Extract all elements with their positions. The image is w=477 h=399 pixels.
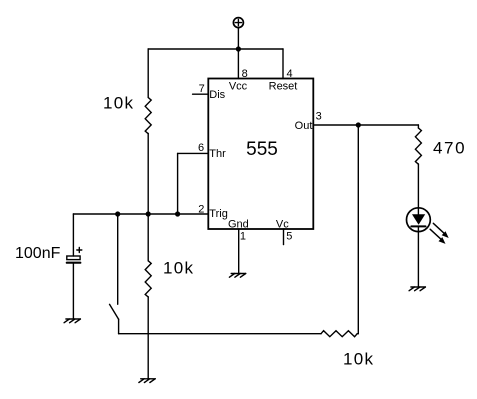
wire left rail upper bbox=[147, 49, 149, 98]
pin 3 wire Out bbox=[313, 124, 418, 126]
pin 1 wire Gnd bbox=[238, 229, 240, 274]
switch S1 blade bbox=[110, 304, 119, 319]
pin 5 stub wire bbox=[283, 229, 285, 245]
svg-text:7: 7 bbox=[199, 83, 205, 95]
svg-text:8: 8 bbox=[242, 68, 248, 80]
resistor R1 10k bbox=[145, 98, 151, 134]
junction dot top rail bbox=[236, 46, 241, 51]
junction dot resistor rail bbox=[146, 211, 151, 216]
wire to pin 4 bbox=[282, 49, 284, 79]
switch S1 bottom wire bbox=[118, 319, 120, 334]
ground under R2 bbox=[139, 379, 155, 383]
svg-text:100nF: 100nF bbox=[15, 245, 61, 262]
wire power to top rail bbox=[237, 28, 239, 49]
svg-text:Gnd: Gnd bbox=[228, 218, 249, 230]
switch S1 top wire bbox=[117, 214, 119, 304]
wire out to R3 bbox=[417, 125, 419, 128]
svg-text:1: 1 bbox=[240, 230, 246, 242]
svg-text:6: 6 bbox=[198, 142, 204, 154]
resistor R4 10k horizontal bbox=[321, 331, 357, 337]
junction dot out node bbox=[356, 122, 361, 127]
wire R2 to ground bbox=[147, 297, 149, 379]
svg-text:3: 3 bbox=[316, 111, 322, 123]
junction dot thr branch bbox=[175, 211, 180, 216]
junction dot switch branch bbox=[115, 211, 120, 216]
ground under C1 bbox=[64, 319, 80, 323]
wire trig rail bbox=[73, 213, 208, 215]
wire bottom rail bbox=[119, 333, 321, 335]
svg-text:Dis: Dis bbox=[209, 89, 225, 101]
svg-text:10k: 10k bbox=[103, 94, 134, 113]
wire to pin 8 bbox=[237, 49, 239, 79]
power symbol Vcc bbox=[233, 18, 243, 28]
LED D1 bbox=[407, 208, 431, 232]
svg-text:Reset: Reset bbox=[269, 80, 298, 92]
resistor R3 470 bbox=[415, 128, 421, 164]
svg-text:4: 4 bbox=[287, 68, 293, 80]
wire R4 to corner bbox=[357, 333, 358, 335]
pin 7 stub wire bbox=[193, 93, 209, 95]
wire out node down bbox=[357, 125, 359, 334]
svg-text:10k: 10k bbox=[163, 259, 194, 278]
resistor R2 10k bbox=[145, 261, 151, 297]
svg-text:555: 555 bbox=[246, 139, 278, 160]
wire trig rail to capacitor bbox=[72, 214, 74, 256]
pin 6 wire bbox=[178, 153, 209, 214]
svg-text:5: 5 bbox=[286, 230, 292, 242]
ground under LED bbox=[409, 287, 425, 291]
svg-text:Thr: Thr bbox=[209, 148, 226, 160]
wire R1 to trig rail bbox=[147, 134, 149, 261]
IC U1 555 timer body bbox=[208, 79, 313, 230]
svg-text:Trig: Trig bbox=[209, 208, 228, 220]
svg-text:Out: Out bbox=[295, 120, 313, 132]
svg-text:10k: 10k bbox=[343, 350, 374, 369]
wire R3 to LED bbox=[417, 164, 419, 215]
wire LED to ground bbox=[417, 226, 419, 287]
ground under pin 1 bbox=[229, 274, 245, 278]
wire top rail bbox=[148, 48, 283, 50]
LED arrows bbox=[430, 223, 449, 244]
svg-text:470: 470 bbox=[433, 139, 466, 158]
capacitor C1 100nF bbox=[67, 248, 82, 263]
svg-text:Vc: Vc bbox=[276, 218, 289, 230]
svg-text:Vcc: Vcc bbox=[229, 80, 248, 92]
wire capacitor to ground bbox=[72, 263, 74, 319]
